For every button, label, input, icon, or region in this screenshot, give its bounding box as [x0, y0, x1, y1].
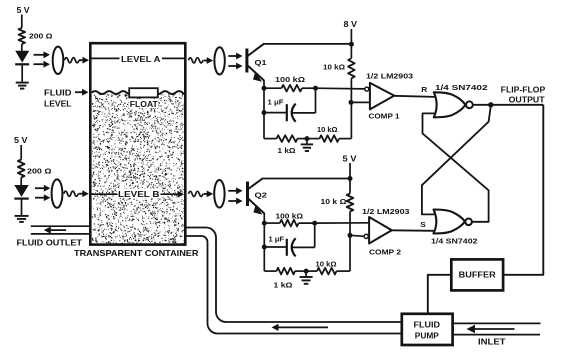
svg-text:1 μF: 1 μF	[269, 235, 285, 244]
svg-text:5 V: 5 V	[17, 6, 31, 15]
wire R3 to comparator node	[349, 78, 354, 138]
ground (stage 2)	[300, 269, 313, 284]
svg-text:5 V: 5 V	[343, 154, 358, 163]
svg-text:OUTPUT: OUTPUT	[509, 96, 545, 105]
svg-text:200 Ω: 200 Ω	[29, 31, 53, 40]
svg-text:INLET: INLET	[478, 338, 506, 347]
svg-text:COMP 1: COMP 1	[369, 112, 400, 121]
wire flip-flop output	[473, 85, 546, 107]
resistor R10 10k (stage 2)	[306, 260, 350, 275]
phototransistor Q1	[247, 44, 267, 82]
NOR gate U3 (1/4 SN7402 bottom)	[431, 210, 478, 246]
label fluid outlet	[17, 237, 83, 247]
lens L2	[52, 179, 63, 207]
resistor R8 100k	[264, 212, 317, 227]
wire cross-couple (U2 out to U3 in)	[422, 106, 491, 214]
wire 8V supply	[344, 20, 358, 58]
node level B line	[92, 189, 184, 200]
svg-text:FLUID: FLUID	[44, 89, 72, 98]
svg-text:R: R	[421, 85, 428, 94]
pipe container to pump (outer wall)	[186, 228, 402, 323]
svg-text:LEVEL: LEVEL	[44, 100, 72, 109]
svg-text:LEVEL A: LEVEL A	[121, 55, 161, 64]
svg-text:10 kΩ: 10 kΩ	[317, 125, 338, 134]
svg-text:1 kΩ: 1 kΩ	[278, 146, 296, 155]
svg-text:1/2 LM2903: 1/2 LM2903	[362, 207, 410, 216]
wire Q1 emitter rail	[262, 80, 267, 139]
light arrows into Q2	[228, 187, 242, 204]
wire Q1 collector	[263, 42, 354, 47]
svg-text:PUMP: PUMP	[415, 332, 440, 341]
wire Q2 emitter rail	[262, 213, 267, 271]
node level A line	[92, 55, 184, 64]
fluid pump M1	[402, 314, 453, 345]
inlet pipe	[453, 323, 541, 334]
resistor R1 200 ohm	[19, 28, 53, 44]
svg-text:Q2: Q2	[255, 190, 268, 199]
wire R2 to LED2	[20, 178, 22, 186]
float	[129, 88, 159, 109]
resistor R7 10k (pull-up B)	[321, 194, 354, 212]
light ray out of container (level B right)	[189, 191, 214, 198]
wire COMP2 inputs	[315, 223, 370, 237]
NOR gate U2 (1/4 SN7402 top)	[434, 83, 488, 117]
svg-text:10 kΩ: 10 kΩ	[323, 63, 345, 72]
wire 5V supply (stage 2)	[343, 154, 358, 193]
wire R1 to LED1	[21, 44, 23, 51]
fluid surface (wavy line)	[92, 91, 184, 94]
svg-text:TRANSPARENT CONTAINER: TRANSPARENT CONTAINER	[74, 248, 199, 258]
wire flip-flop output to buffer	[503, 105, 543, 275]
pipe flow arrow (bottom)	[272, 324, 329, 331]
lens L4	[214, 180, 224, 208]
svg-text:FLOAT: FLOAT	[130, 100, 158, 109]
LED D2	[14, 185, 28, 215]
svg-text:FLUID OUTLET: FLUID OUTLET	[17, 237, 83, 247]
wire cross-couple (U3 out to U2 in)	[423, 113, 489, 221]
label transparent container	[74, 248, 199, 258]
svg-text:1/4 SN7402: 1/4 SN7402	[431, 237, 478, 246]
capacitor C2 1uF	[264, 223, 314, 256]
resistor R3 10k (pull-up A)	[323, 58, 355, 78]
ground (D2)	[15, 216, 29, 222]
svg-text:1 kΩ: 1 kΩ	[274, 281, 293, 290]
resistor R9 1k	[264, 268, 306, 290]
LED D1	[15, 51, 29, 82]
light arrows from D2	[35, 185, 50, 201]
ground (stage 1)	[301, 136, 313, 151]
light ray out of container (level A right)	[189, 57, 214, 64]
fluid (stippled fill)	[92, 94, 185, 245]
op-amp U1 COMP1	[365, 72, 413, 121]
label fluid level	[44, 89, 89, 109]
lens L1	[53, 47, 64, 74]
svg-text:5 V: 5 V	[14, 136, 28, 145]
light ray into container (level A left)	[65, 57, 90, 64]
svg-text:LEVEL B: LEVEL B	[118, 190, 160, 199]
wire 5V supply V1 (top-left)	[17, 6, 31, 28]
capacitor C1 1uF	[264, 88, 316, 122]
transparent container	[90, 43, 185, 244]
svg-text:S: S	[420, 220, 426, 229]
svg-text:Q1: Q1	[255, 58, 267, 67]
wire COMP1 output (R)	[394, 85, 435, 97]
pipe container to pump (inner wall)	[186, 236, 402, 334]
wire 5V supply V2 (bottom-left)	[14, 136, 28, 160]
svg-text:1/4 SN7402: 1/4 SN7402	[435, 83, 488, 92]
svg-text:FLIP-FLOP: FLIP-FLOP	[501, 85, 546, 94]
light arrows into Q1	[228, 53, 242, 70]
inlet flow arrow	[467, 325, 515, 347]
svg-text:COMP 2: COMP 2	[369, 248, 401, 257]
phototransistor Q2	[248, 179, 268, 215]
svg-text:100 kΩ: 100 kΩ	[276, 212, 304, 221]
ground (D1)	[16, 83, 29, 89]
resistor R5 1k	[264, 135, 307, 155]
svg-text:1 μF: 1 μF	[268, 97, 285, 106]
svg-text:200 Ω: 200 Ω	[27, 167, 52, 176]
fluid outlet pipe	[31, 226, 89, 234]
resistor R4 100k	[264, 75, 318, 92]
resistor R2 200 ohm	[18, 160, 52, 178]
wire R7 to comparator node	[348, 212, 353, 272]
wire COMP1 inputs	[316, 88, 371, 102]
wire COMP2 output (S)	[391, 220, 434, 231]
wire Q2 collector	[262, 176, 353, 181]
svg-text:10 k Ω: 10 k Ω	[321, 197, 347, 206]
wire buffer to pump	[428, 275, 452, 314]
lens L3	[214, 47, 224, 74]
svg-text:FLUID: FLUID	[414, 321, 441, 330]
svg-text:10 kΩ: 10 kΩ	[316, 260, 337, 269]
buffer U5	[451, 259, 503, 290]
svg-text:100 kΩ: 100 kΩ	[275, 75, 305, 84]
op-amp U4 COMP2	[362, 207, 410, 257]
svg-text:BUFFER: BUFFER	[459, 271, 496, 280]
svg-text:8 V: 8 V	[344, 20, 358, 29]
light arrows from D1	[34, 51, 51, 67]
resistor R6 10k (stage 1)	[307, 125, 352, 142]
light ray into container (level B left)	[64, 190, 89, 197]
svg-text:1/2 LM2903: 1/2 LM2903	[366, 72, 413, 81]
